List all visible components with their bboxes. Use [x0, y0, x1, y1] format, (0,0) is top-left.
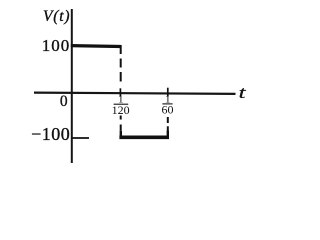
waveform high segment (+100 from 0 to 1/120): [71, 44, 121, 48]
fraction label 1/120: [112, 93, 130, 117]
dashed transition at t=1/120 above axis: [120, 59, 122, 68]
t axis (horizontal): [34, 93, 236, 94]
tick at -100 on V axis: [73, 137, 90, 139]
tick at t=1/120: [119, 88, 121, 96]
svg-text:60: 60: [162, 103, 174, 117]
waveform low segment (-100 from 1/120 to 1/60): [119, 136, 169, 140]
svg-text:V(t): V(t): [43, 8, 70, 25]
corner drop solid at t=1/120: [120, 45, 122, 54]
dashed transition at t=1/120 below label: [120, 116, 122, 120]
corner solid left of low segment: [120, 131, 122, 137]
fraction label 1/60: [162, 93, 174, 116]
svg-text:0: 0: [60, 93, 68, 110]
V axis (vertical): [71, 9, 73, 163]
dashed transition at t=1/60 below axis: [167, 126, 169, 131]
svg-text:100: 100: [42, 36, 71, 55]
tick at t=1/60: [167, 88, 169, 97]
svg-text:−100: −100: [31, 124, 70, 144]
corner solid right of low segment: [167, 131, 169, 137]
svg-text:120: 120: [112, 103, 130, 117]
